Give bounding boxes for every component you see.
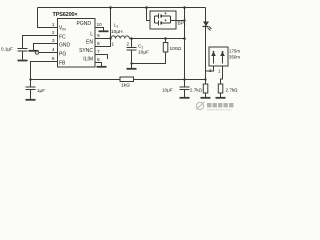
svg-text:350mA: 350mA xyxy=(229,54,240,59)
svg-text:2.7kΩ: 2.7kΩ xyxy=(226,88,239,93)
wire pin 4 PG xyxy=(39,52,57,54)
wire diode branch vertical xyxy=(205,8,207,80)
svg-text:L: L xyxy=(90,32,93,38)
svg-text:1µF: 1µF xyxy=(37,88,45,93)
svg-text:7: 7 xyxy=(97,49,100,55)
svg-text:GND: GND xyxy=(59,43,71,49)
node dot rail-EN xyxy=(109,6,112,9)
wire battery node vertical xyxy=(184,8,186,87)
svg-text:9: 9 xyxy=(97,33,100,39)
svg-text:SYNC: SYNC xyxy=(79,48,93,54)
ground PGND xyxy=(99,30,109,32)
inductor L1 10uH xyxy=(111,36,129,39)
node dot 100ohm top xyxy=(164,37,167,40)
ground ILIM xyxy=(97,66,107,68)
switch element 1 xyxy=(213,54,215,64)
svg-text:EN: EN xyxy=(86,40,93,46)
node dot rail end diode xyxy=(204,78,206,80)
node dot EN cross L xyxy=(109,37,111,39)
svg-text:PGND: PGND xyxy=(77,21,92,27)
battery plus marks xyxy=(165,12,167,21)
wire VIN drop to pin 1 xyxy=(38,8,58,28)
svg-text:0.1µF: 0.1µF xyxy=(1,47,13,52)
wire switch pin 1 stub to Rb xyxy=(221,66,223,84)
ground Rb xyxy=(216,97,226,99)
wire pin 6 ILIM xyxy=(95,63,102,67)
resistor Rb 2.7k xyxy=(218,84,223,93)
svg-text:2: 2 xyxy=(52,30,55,36)
wire C1 bottom to 100ohm bottom xyxy=(132,52,166,64)
ground 0.1uF xyxy=(18,60,28,62)
capacitor 1uF xyxy=(26,80,36,100)
watermark text blocks xyxy=(207,103,233,112)
ground 10uF battery xyxy=(180,97,190,99)
ground 1uF xyxy=(26,99,36,101)
battery cell 2 xyxy=(155,21,171,26)
switch box S1 current select xyxy=(209,47,228,66)
resistor 100ohm xyxy=(165,39,167,43)
resistor 1k xyxy=(120,77,134,82)
wire inductor to battery node xyxy=(129,38,184,40)
capacitor C1 10uF xyxy=(127,39,137,64)
capacitor 0.1uF xyxy=(18,49,28,60)
svg-text:2: 2 xyxy=(127,42,130,47)
diode D1 LED xyxy=(203,26,209,28)
battery cell 1 xyxy=(155,14,171,24)
svg-text:4: 4 xyxy=(52,47,55,53)
switch element 2 xyxy=(222,54,224,64)
ground GND pin xyxy=(29,50,39,52)
wire pin 3 GND xyxy=(34,44,58,51)
node dot battery lead xyxy=(183,19,185,21)
svg-text:10µH: 10µH xyxy=(111,29,123,35)
svg-text:8: 8 xyxy=(97,41,100,47)
ground C1 xyxy=(127,64,137,69)
switch contact dots xyxy=(213,51,215,53)
svg-text:2.7kΩ: 2.7kΩ xyxy=(190,88,203,93)
svg-text:5: 5 xyxy=(52,56,55,62)
svg-text:ILIM: ILIM xyxy=(83,57,93,63)
node dot rail-battery-node xyxy=(183,6,186,9)
svg-text:FC: FC xyxy=(59,35,66,41)
wire battery right lead xyxy=(171,16,185,23)
node dot C1 gnd xyxy=(130,62,132,64)
watermark logo xyxy=(196,102,205,110)
wire FB rail end to Ra xyxy=(205,80,207,85)
wire EN vertical from rail xyxy=(95,8,111,47)
svg-text:FB: FB xyxy=(59,61,66,67)
wire battery left lead xyxy=(147,8,151,21)
svg-text:3: 3 xyxy=(52,38,55,44)
wire pin 2 FC xyxy=(23,36,58,49)
svg-text:www.elecfans.com: www.elecfans.com xyxy=(207,108,232,112)
svg-text:6: 6 xyxy=(97,57,100,63)
wire FB rail xyxy=(31,79,207,81)
svg-text:1: 1 xyxy=(112,42,115,47)
node PG open circle xyxy=(35,51,38,54)
svg-text:PG: PG xyxy=(59,52,66,58)
svg-text:100Ω: 100Ω xyxy=(170,46,182,52)
capacitor 10uF battery xyxy=(180,87,190,97)
svg-text:175mA: 175mA xyxy=(229,49,240,54)
node dot rail-battery-left xyxy=(145,6,148,9)
op-amp U1 TPS6200X chip box xyxy=(58,19,96,68)
svg-text:10µF: 10µF xyxy=(162,88,173,93)
node dot C1 top xyxy=(130,37,133,40)
wire switch pin 2 stub to diode branch xyxy=(206,66,214,71)
resistor Ra 2.7k xyxy=(203,84,208,93)
battery pack BP1 box xyxy=(150,11,176,29)
wire pin 9 L to inductor xyxy=(95,38,111,40)
svg-text:1: 1 xyxy=(52,22,55,28)
diode D1 triangle xyxy=(203,22,209,27)
svg-text:TPS6200×: TPS6200× xyxy=(53,12,78,18)
wire pin 7 SYNC stub xyxy=(95,55,108,60)
svg-text:1kΩ: 1kΩ xyxy=(121,83,130,89)
node dot battery-FB cross xyxy=(183,78,185,80)
wire pin 5 FB xyxy=(31,62,58,80)
ground Ra xyxy=(201,97,211,99)
svg-text:10µF: 10µF xyxy=(138,50,149,56)
wire pin 10 PGND xyxy=(95,28,104,31)
node dot FB corner xyxy=(29,78,31,80)
node dot battery node out xyxy=(183,37,186,40)
wire top VIN rail xyxy=(38,7,206,9)
svg-text:10: 10 xyxy=(97,22,103,28)
